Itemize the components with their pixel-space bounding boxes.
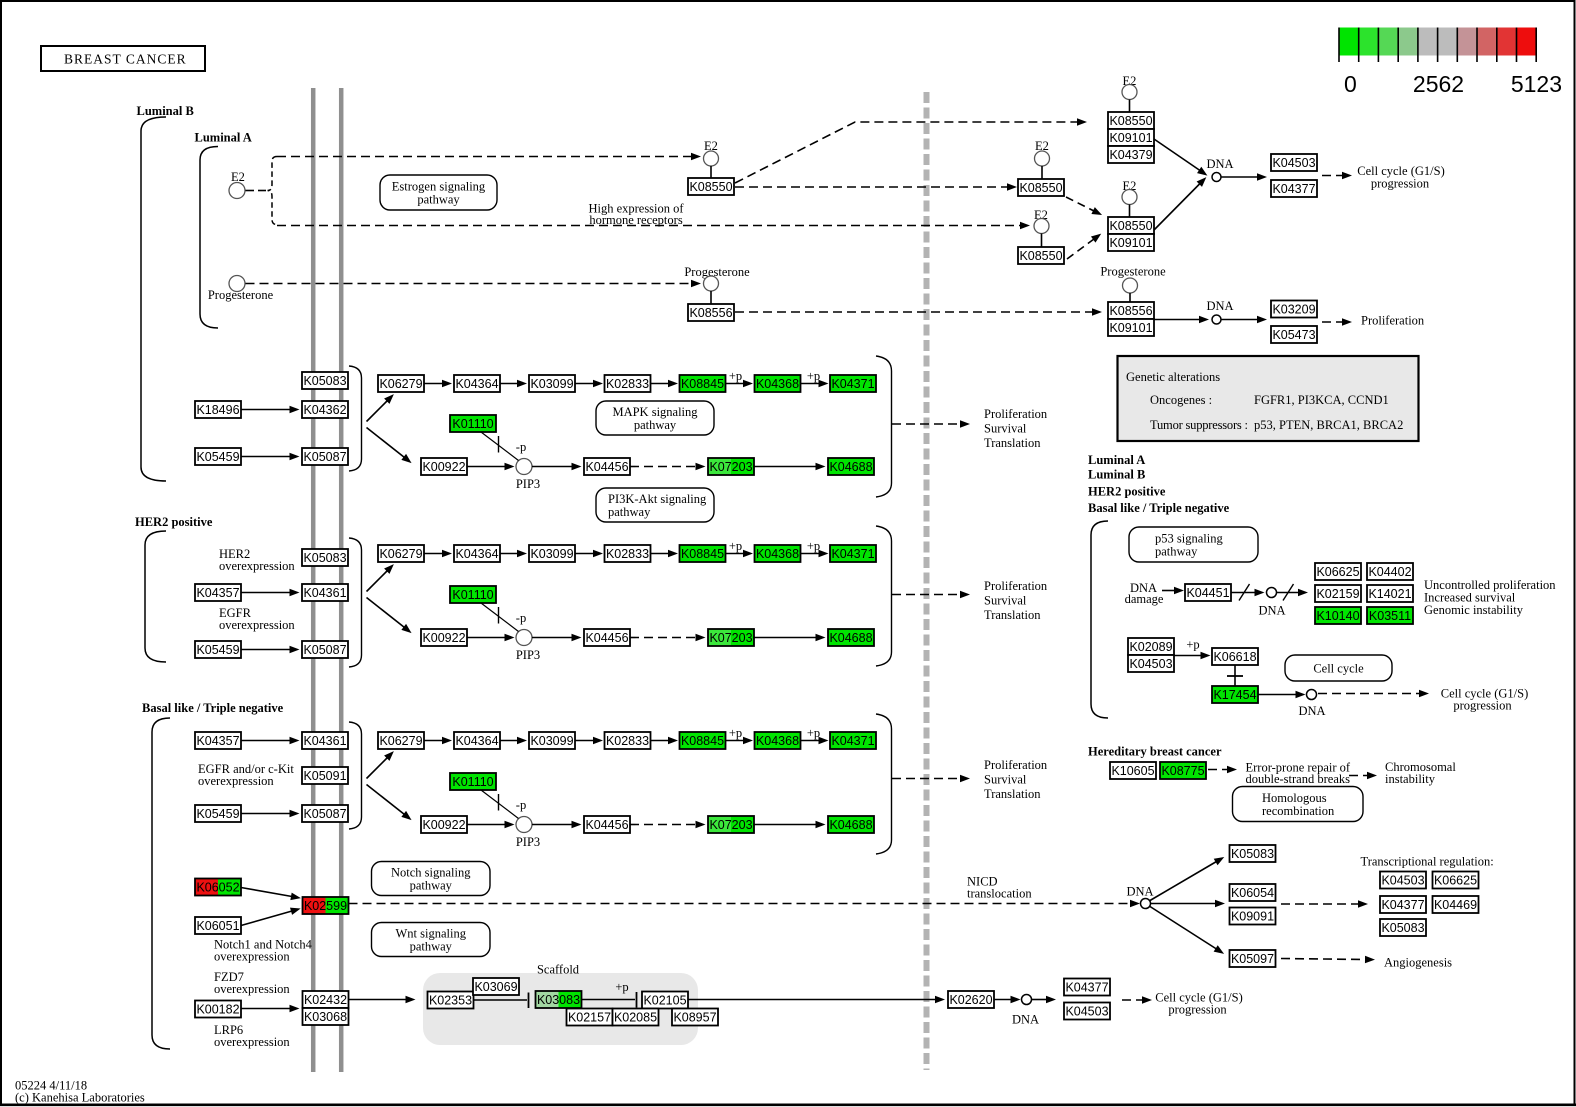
box K05087 receptor basal <box>302 805 348 822</box>
svg-text:K09091: K09091 <box>1231 910 1274 924</box>
wire E2 dimer circle to stack <box>1129 205 1131 218</box>
svg-text:-p: -p <box>516 611 526 625</box>
svg-text:K17454: K17454 <box>1213 688 1256 702</box>
box K04469 transcription <box>1433 896 1479 913</box>
svg-text:Notch signaling: Notch signaling <box>391 866 471 880</box>
pathway box Cell cycle <box>1285 655 1392 681</box>
svg-text:K04371: K04371 <box>831 734 874 748</box>
box K04503 transcription <box>1380 872 1426 889</box>
svg-text:K06052: K06052 <box>196 881 239 895</box>
svg-text:K04357: K04357 <box>196 734 239 748</box>
dashed wire to cell cycle G1S p53 <box>1318 690 1429 698</box>
svg-text:Oncogenes :: Oncogenes : <box>1150 393 1212 407</box>
dashed wire K05097 to angiogenesis <box>1281 956 1375 964</box>
box K00922 her2 <box>421 629 467 646</box>
svg-text:K00922: K00922 <box>422 631 465 645</box>
svg-text:overexpression: overexpression <box>214 950 290 964</box>
svg-text:+p: +p <box>807 539 820 553</box>
box K05083 receptor her2 <box>302 549 348 566</box>
svg-text:+p: +p <box>729 726 742 740</box>
wire receptors to K06279 her2 <box>367 561 397 591</box>
node E2 ligand left <box>229 183 245 199</box>
box K06051 notch ligand b <box>195 917 241 934</box>
dashed wire E2 lower branch <box>277 222 1030 230</box>
dashed wire K04456-K07203 luminal <box>630 463 706 471</box>
dashed wire K08550 to right K08550 <box>735 183 1017 191</box>
wire K08845-K04368 her2 <box>726 550 754 558</box>
svg-text:pathway: pathway <box>410 940 453 954</box>
wire K07203-K04688 basal <box>754 821 826 829</box>
svg-text:K04503: K04503 <box>1272 156 1315 170</box>
svg-text:hormone receptors: hormone receptors <box>589 213 683 227</box>
pathway box p53 signaling pathway <box>1129 527 1258 562</box>
svg-text:+p: +p <box>729 369 742 383</box>
wire K02833-K08845 basal <box>651 737 679 745</box>
svg-text:K04368: K04368 <box>756 547 799 561</box>
svg-text:K04377: K04377 <box>1065 981 1108 995</box>
dashed wire wnt to cell cycle <box>1122 996 1152 1004</box>
node E2 dimer <box>1122 190 1137 205</box>
svg-text:K04371: K04371 <box>831 547 874 561</box>
wire K00182-K02432 <box>241 1005 300 1013</box>
bracket HER2 positive group <box>145 531 166 662</box>
svg-text:+p: +p <box>807 369 820 383</box>
wire K01110 inhibits PIP3 basal <box>481 790 519 819</box>
wire K05459-K05087 basal <box>241 810 300 818</box>
svg-text:K07203: K07203 <box>709 631 752 645</box>
svg-text:K08845: K08845 <box>681 734 724 748</box>
svg-text:Angiogenesis: Angiogenesis <box>1384 956 1452 970</box>
svg-text:K04364: K04364 <box>455 547 498 561</box>
svg-text:K05087: K05087 <box>303 643 346 657</box>
svg-text:progression: progression <box>1168 1003 1227 1017</box>
node E2 receptor mid <box>704 151 719 166</box>
svg-text:translocation: translocation <box>967 887 1032 901</box>
box K02833 her2 <box>605 545 651 562</box>
svg-text:K04377: K04377 <box>1272 182 1315 196</box>
svg-text:DNA: DNA <box>1206 157 1233 171</box>
svg-text:K09101: K09101 <box>1109 236 1152 250</box>
node DNA wnt <box>1022 995 1032 1005</box>
box K04361 receptor basal <box>302 732 348 749</box>
box K03068 wnt receptor b <box>303 1008 349 1025</box>
box K10140 p53 target <box>1315 607 1361 624</box>
node Progesterone nuclear <box>1123 278 1138 293</box>
bracket receptor complex luminal <box>349 366 362 471</box>
box K06279 her2 <box>378 545 424 562</box>
wire K06279-K04364 basal <box>424 737 452 745</box>
box K03083 scaffold <box>536 991 582 1008</box>
box K04371 her2 <box>830 545 876 562</box>
plasma membrane line 2 <box>339 88 344 1072</box>
dashed wire to cell cycle progression <box>1322 172 1352 180</box>
svg-text:DNA: DNA <box>1206 299 1233 313</box>
wire PIP3-K04456 luminal <box>532 463 582 471</box>
svg-text:Survival: Survival <box>984 594 1027 608</box>
box K07203 luminal <box>708 458 754 475</box>
wire K03099-K02833 basal <box>575 737 603 745</box>
svg-text:double-strand breaks: double-strand breaks <box>1246 772 1351 786</box>
box K06625 transcription <box>1433 872 1479 889</box>
svg-text:pathway: pathway <box>417 193 460 207</box>
wire receptors to K06279 basal <box>367 748 397 778</box>
wire K02432 to scaffold <box>349 996 416 1004</box>
wire DNA p53 to targets with slash <box>1277 592 1299 594</box>
wire K06279-K04364 luminal <box>424 380 452 388</box>
svg-text:Luminal A: Luminal A <box>1088 453 1145 467</box>
box K07203 basal <box>708 816 754 833</box>
box K08550 dimer <box>1108 217 1154 234</box>
box K04371 basal <box>830 732 876 749</box>
box K02157 scaffold <box>567 1009 613 1026</box>
wire E2 right mid-b circle to box <box>1041 234 1043 248</box>
node PIP3 luminal <box>516 459 532 475</box>
svg-text:PIP3: PIP3 <box>516 648 540 662</box>
svg-text:K08957: K08957 <box>673 1011 716 1025</box>
box K18496 ligand <box>195 401 241 418</box>
box K06279 basal <box>378 732 424 749</box>
svg-text:K06051: K06051 <box>196 919 239 933</box>
svg-text:K03209: K03209 <box>1272 303 1315 317</box>
svg-text:K05097: K05097 <box>1231 952 1274 966</box>
box K02833 luminal <box>605 375 651 392</box>
box K02089 p53 <box>1128 638 1174 655</box>
wire dimer stack to DNA node <box>1154 174 1209 230</box>
wire K04364-K03099 basal <box>500 737 527 745</box>
svg-text:Proliferation: Proliferation <box>984 579 1048 593</box>
svg-text:K00922: K00922 <box>422 460 465 474</box>
svg-text:MAPK signaling: MAPK signaling <box>612 405 698 419</box>
dashed wire luminal output <box>892 420 970 428</box>
svg-text:-p: -p <box>516 798 526 812</box>
svg-text:overexpression: overexpression <box>198 774 274 788</box>
box K04377 estrogen target <box>1271 180 1317 197</box>
box K04688 luminal <box>828 458 874 475</box>
svg-text:K06279: K06279 <box>379 377 422 391</box>
dashed wire to proliferation <box>1322 318 1352 326</box>
box K04357 ligand basal <box>195 732 241 749</box>
box K10605 hereditary <box>1110 762 1156 779</box>
svg-text:K06054: K06054 <box>1231 886 1274 900</box>
box K03511 p53 target <box>1367 607 1413 624</box>
svg-text:Hereditary breast cancer: Hereditary breast cancer <box>1088 745 1222 759</box>
svg-text:Genetic alterations: Genetic alterations <box>1126 370 1220 384</box>
svg-text:K00182: K00182 <box>196 1003 239 1017</box>
box K04371 luminal <box>830 375 876 392</box>
dashed wire K08556 to nuclear stack <box>735 308 1102 316</box>
svg-text:Cell cycle: Cell cycle <box>1313 662 1364 676</box>
wire K06051-K02599 <box>241 905 302 926</box>
dashed wire progesterone across membrane <box>246 280 702 288</box>
svg-text:Progesterone: Progesterone <box>1100 265 1166 279</box>
dashed wire her2 output <box>892 591 970 599</box>
svg-text:damage: damage <box>1125 592 1164 606</box>
wire progesterone mid circle to box <box>710 291 712 304</box>
wire K02620 to DNA wnt <box>994 996 1021 1004</box>
wire receptors to K00922 luminal <box>367 428 414 467</box>
wire K07203-K04688 her2 <box>754 634 826 642</box>
svg-text:Estrogen signaling: Estrogen signaling <box>392 180 486 194</box>
wire E2 to brace <box>246 190 255 192</box>
pathway box Estrogen signaling pathway <box>380 175 497 210</box>
box K08845 her2 <box>680 545 726 562</box>
svg-text:Wnt signaling: Wnt signaling <box>396 927 467 941</box>
box K06279 luminal <box>378 375 424 392</box>
svg-text:HER2 positive: HER2 positive <box>1088 485 1166 499</box>
box K05459 ligand basal <box>195 805 241 822</box>
bracket output luminal <box>876 356 892 497</box>
svg-text:K05083: K05083 <box>303 551 346 565</box>
box K06625 p53 target <box>1315 563 1361 580</box>
svg-text:0: 0 <box>1344 71 1357 97</box>
svg-text:K04503: K04503 <box>1065 1005 1108 1019</box>
node PIP3 her2 <box>516 630 532 646</box>
box K04364 basal <box>454 732 500 749</box>
box K02085 scaffold <box>613 1009 659 1026</box>
expression color scale legend <box>1339 28 1562 98</box>
box K03069 scaffold <box>473 978 519 995</box>
wire K04451 to DNA p53 with slash <box>1231 592 1255 594</box>
svg-text:K01110: K01110 <box>452 417 493 431</box>
svg-text:overexpression: overexpression <box>214 1035 290 1049</box>
svg-text:pathway: pathway <box>410 879 453 893</box>
svg-text:K04503: K04503 <box>1381 874 1424 888</box>
svg-text:PI3K-Akt signaling: PI3K-Akt signaling <box>608 492 707 506</box>
svg-text:Translation: Translation <box>984 787 1041 801</box>
box K02432 wnt receptor <box>303 991 349 1008</box>
box K05459 ligand luminal <box>195 448 241 465</box>
svg-text:K02620: K02620 <box>949 993 992 1007</box>
wire receptors to K06279 luminal <box>367 391 397 421</box>
svg-text:K08550: K08550 <box>1019 181 1062 195</box>
box K00922 basal <box>421 816 467 833</box>
node Progesterone ligand left <box>229 276 245 292</box>
box K09101 nuclear top <box>1108 129 1154 146</box>
bracket Basal like group <box>152 718 170 1049</box>
wire K01110 inhibits PIP3 luminal <box>481 432 519 461</box>
box K04368 basal <box>755 732 801 749</box>
svg-text:Luminal A: Luminal A <box>195 131 252 145</box>
wire K18496-K04362 <box>241 406 300 414</box>
svg-text:K02833: K02833 <box>606 377 649 391</box>
svg-text:p53 signaling: p53 signaling <box>1155 532 1223 546</box>
svg-text:K10605: K10605 <box>1111 764 1154 778</box>
svg-text:K04456: K04456 <box>585 631 628 645</box>
svg-text:K03099: K03099 <box>530 377 573 391</box>
svg-text:K08845: K08845 <box>681 377 724 391</box>
wire DNA node to K03209 <box>1222 316 1268 324</box>
svg-text:Transcriptional regulation:: Transcriptional regulation: <box>1361 855 1494 869</box>
node DNA cellcycle <box>1307 690 1317 700</box>
wire K04357-K04361 basal <box>241 737 300 745</box>
box K05087 receptor her2 <box>302 641 348 658</box>
svg-text:K04688: K04688 <box>829 460 872 474</box>
svg-text:K01110: K01110 <box>452 588 493 602</box>
tick -p dephosphorylation her2 <box>498 607 500 624</box>
dashed wire K08775 to error-prone repair <box>1208 766 1237 774</box>
box K04503 p53 <box>1128 655 1174 672</box>
wire K04368-K04371 her2 <box>801 550 829 558</box>
svg-text:K06279: K06279 <box>379 734 422 748</box>
wire receptors to K00922 basal <box>367 785 414 824</box>
wire K04368-K04371 luminal <box>801 380 829 388</box>
pathway box PI3K-Akt signaling pathway <box>596 488 714 522</box>
node E2 right mid-b <box>1034 219 1049 234</box>
svg-text:HER2 positive: HER2 positive <box>135 515 213 529</box>
svg-text:BREAST CANCER: BREAST CANCER <box>64 52 187 67</box>
svg-text:K03099: K03099 <box>530 547 573 561</box>
box K00182 wnt ligand <box>195 1001 241 1018</box>
svg-text:K09101: K09101 <box>1109 131 1152 145</box>
box K02353 scaffold <box>428 992 474 1009</box>
svg-text:K05083: K05083 <box>1231 847 1274 861</box>
wire K06618 inhibits K17454 <box>1234 665 1236 686</box>
svg-text:Translation: Translation <box>984 436 1041 450</box>
dashed wire basal output <box>892 775 970 783</box>
box K04364 luminal <box>454 375 500 392</box>
svg-text:K03069: K03069 <box>474 980 517 994</box>
box K04451 p53 <box>1185 584 1231 601</box>
box K14021 p53 target <box>1367 585 1413 602</box>
wire K08556 stack to DNA node <box>1154 316 1209 324</box>
bracket Luminal A group <box>200 147 218 329</box>
box K01110 luminal <box>450 415 496 432</box>
svg-text:K18496: K18496 <box>196 403 239 417</box>
svg-text:E2: E2 <box>231 170 245 184</box>
box K05083 notch target <box>1230 845 1276 862</box>
tick -p dephosphorylation basal <box>498 794 500 811</box>
nuclear membrane dashed line <box>924 92 930 1070</box>
plasma membrane line 1 <box>311 88 316 1072</box>
svg-text:K01110: K01110 <box>452 775 493 789</box>
svg-text:progression: progression <box>1371 177 1430 191</box>
title box BREAST CANCER <box>41 46 205 71</box>
svg-text:Survival: Survival <box>984 422 1027 436</box>
svg-text:K04361: K04361 <box>303 734 346 748</box>
wire DNA to K05083 notch <box>1150 854 1226 901</box>
box K01110 basal <box>450 773 496 790</box>
svg-text:K03068: K03068 <box>304 1010 347 1024</box>
svg-text:K03099: K03099 <box>530 734 573 748</box>
box K08845 basal <box>680 732 726 749</box>
box K03099 basal <box>529 732 575 749</box>
box K07203 her2 <box>708 629 754 646</box>
svg-text:K07203: K07203 <box>709 818 752 832</box>
wire K00922-PIP3 basal <box>467 821 515 829</box>
svg-text:K02833: K02833 <box>606 547 649 561</box>
wire K08845-K04368 basal <box>726 737 754 745</box>
box K06054 notch target <box>1230 884 1276 901</box>
box K04456 her2 <box>584 629 630 646</box>
box K04456 luminal <box>584 458 630 475</box>
svg-text:pathway: pathway <box>1155 545 1198 559</box>
box K05087 receptor luminal <box>302 448 348 465</box>
svg-text:DNA: DNA <box>1012 1013 1039 1027</box>
svg-text:K06625: K06625 <box>1316 565 1359 579</box>
svg-text:K05459: K05459 <box>196 450 239 464</box>
svg-text:+p: +p <box>807 726 820 740</box>
svg-text:overexpression: overexpression <box>219 559 295 573</box>
box K08556 nuclear <box>1108 302 1154 319</box>
svg-text:K06279: K06279 <box>379 547 422 561</box>
box K04379 nuclear top <box>1108 146 1154 163</box>
bracket output basal <box>876 714 892 854</box>
svg-text:K04371: K04371 <box>831 377 874 391</box>
wire K06052-K02599 <box>241 888 302 902</box>
bracket p53 section <box>1091 521 1108 718</box>
dashed wire K06054 to transcriptional regulation <box>1281 900 1368 908</box>
wire K02833-K08845 luminal <box>651 380 679 388</box>
box K04688 basal <box>828 816 874 833</box>
box K05097 notch target <box>1230 950 1276 967</box>
box K05083 receptor luminal <box>302 372 348 389</box>
svg-text:K08775: K08775 <box>1161 764 1204 778</box>
svg-text:Basal like / Triple negative: Basal like / Triple negative <box>1088 501 1230 515</box>
box K09091 notch target <box>1230 908 1276 925</box>
svg-text:K05459: K05459 <box>196 643 239 657</box>
node DNA p53 <box>1267 588 1277 598</box>
svg-text:K02085: K02085 <box>614 1011 657 1025</box>
node E2 top right <box>1122 85 1137 100</box>
box K08550 nuclear top <box>1108 112 1154 129</box>
dashed wire K04456-K07203 her2 <box>630 634 706 642</box>
wire K08845-K04368 luminal <box>726 380 754 388</box>
box K05473 target <box>1271 326 1317 343</box>
svg-text:K08556: K08556 <box>689 306 732 320</box>
wire receptors to K00922 her2 <box>367 598 414 637</box>
svg-text:K02599: K02599 <box>304 899 347 913</box>
svg-text:K02089: K02089 <box>1129 640 1172 654</box>
box K08556 mid <box>688 304 734 321</box>
svg-text:K05083: K05083 <box>1381 921 1424 935</box>
node DNA notch <box>1141 899 1151 909</box>
svg-text:K10140: K10140 <box>1316 609 1359 623</box>
wire DNA node to K04503 <box>1222 173 1268 181</box>
svg-text:overexpression: overexpression <box>214 982 290 996</box>
svg-text:K04456: K04456 <box>585 818 628 832</box>
bracket Luminal B group <box>141 117 166 481</box>
pathway box Homologous recombination <box>1233 787 1364 822</box>
svg-text:K05087: K05087 <box>303 450 346 464</box>
svg-text:instability: instability <box>1385 772 1436 786</box>
wire K05459-K05087 luminal <box>241 453 300 461</box>
bracket receptor complex basal <box>349 722 362 829</box>
box K04456 basal <box>584 816 630 833</box>
box K05083 transcription <box>1380 919 1426 936</box>
wire E2 top right circle to stack <box>1129 100 1131 113</box>
wire K02089 stack to K06618 <box>1174 652 1211 660</box>
svg-text:5123: 5123 <box>1511 71 1562 97</box>
svg-text:+p: +p <box>729 539 742 553</box>
box K04368 her2 <box>755 545 801 562</box>
wire K01110 inhibits PIP3 her2 <box>481 603 519 632</box>
svg-text:K04377: K04377 <box>1381 898 1424 912</box>
svg-text:Scaffold: Scaffold <box>537 963 580 977</box>
box K09101 dimer <box>1108 234 1154 251</box>
svg-text:K05087: K05087 <box>303 807 346 821</box>
dashed brace from E2 <box>268 157 278 225</box>
wire K04364-K03099 her2 <box>500 550 527 558</box>
pathway box Notch signaling pathway <box>372 862 491 896</box>
wire DNA wnt to K04377 <box>1032 996 1057 1004</box>
dashed wire K08550 to upper right stack <box>735 122 1077 183</box>
svg-text:Luminal B: Luminal B <box>1088 468 1145 482</box>
node DNA estrogen <box>1212 173 1221 182</box>
svg-text:K05091: K05091 <box>303 769 346 783</box>
svg-text:K04368: K04368 <box>756 377 799 391</box>
svg-text:Tumor suppressors :: Tumor suppressors : <box>1150 418 1248 432</box>
svg-text:K04688: K04688 <box>829 818 872 832</box>
